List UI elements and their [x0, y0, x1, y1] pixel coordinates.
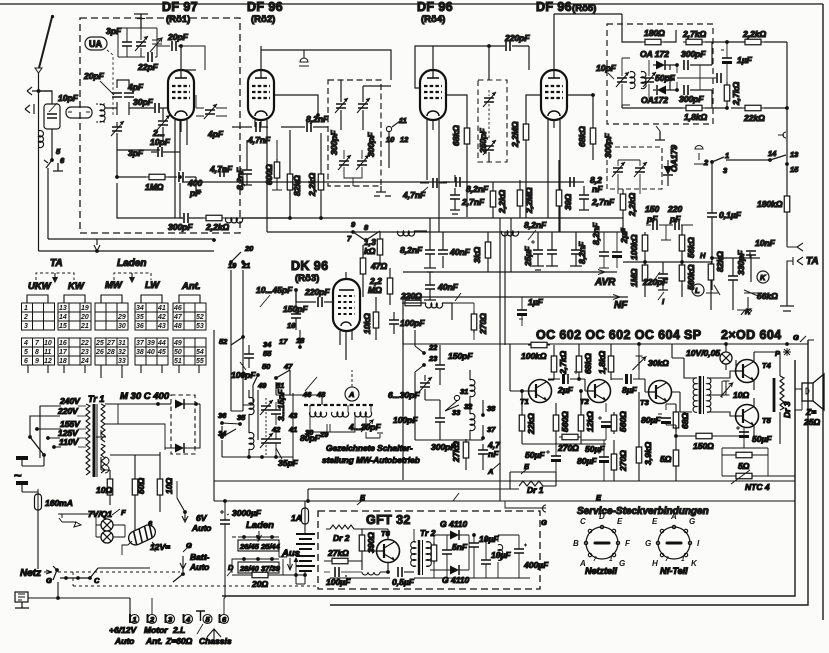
osc tank rails — [118, 28, 157, 57]
junction — [591, 93, 595, 97]
svg-text:6...30pF: 6...30pF — [388, 390, 420, 400]
bus NF y297 — [403, 297, 628, 350]
wire — [528, 230, 536, 240]
transistor T6 — [377, 540, 400, 563]
wire — [726, 104, 728, 108]
svg-text:40: 40 — [146, 349, 155, 356]
trimmer MW — [361, 420, 373, 432]
wire — [151, 598, 153, 614]
cap 22pF — [148, 52, 152, 62]
wire — [570, 232, 582, 266]
choke Dr1 — [510, 472, 556, 489]
cap 30pF series — [155, 103, 159, 113]
wire — [403, 303, 452, 320]
svg-text:18: 18 — [296, 336, 305, 345]
box — [333, 279, 360, 331]
svg-text:+6/12V: +6/12V — [109, 625, 138, 635]
svg-text:Gezeichnete Schalter-: Gezeichnete Schalter- — [326, 443, 413, 453]
wire — [299, 330, 301, 347]
box — [666, 542, 683, 545]
cap 8.2nF avr — [599, 252, 609, 256]
svg-text:100pF: 100pF — [231, 370, 256, 380]
wire — [126, 28, 128, 57]
wire — [220, 501, 225, 598]
svg-text:300pF: 300pF — [603, 133, 613, 158]
T3 base — [645, 379, 648, 392]
svg-text:56kΩ: 56kΩ — [686, 237, 696, 258]
wire — [611, 378, 645, 380]
svg-text:Auto: Auto — [189, 562, 209, 572]
wire — [721, 42, 727, 108]
wire — [737, 297, 752, 315]
transistor T4 — [736, 360, 759, 383]
res 560 vb — [611, 412, 617, 434]
svg-text:50: 50 — [262, 362, 271, 371]
wire from netz switch down — [57, 582, 59, 598]
wire — [770, 155, 786, 160]
svg-text:DF 96: DF 96 — [417, 0, 453, 14]
svg-text:2.L: 2.L — [172, 625, 185, 635]
dashed box demod — [607, 147, 662, 189]
res 600 — [274, 159, 280, 181]
svg-text:32: 32 — [464, 402, 473, 411]
wire — [699, 65, 701, 90]
wire — [452, 303, 474, 340]
junction — [241, 335, 245, 339]
svg-text:1,8kΩ: 1,8kΩ — [684, 112, 708, 122]
svg-text:10Ω: 10Ω — [96, 485, 112, 495]
svg-text:23: 23 — [428, 354, 438, 363]
wire H line — [623, 261, 710, 263]
res 27k h — [329, 558, 351, 564]
wire — [656, 126, 660, 131]
svg-text:G: G — [689, 517, 695, 526]
svg-text:29: 29 — [117, 314, 126, 321]
svg-text:10pF: 10pF — [596, 63, 617, 73]
trimmer demod a — [612, 162, 625, 177]
wire — [404, 571, 414, 573]
wire — [177, 498, 188, 522]
component — [630, 72, 635, 89]
junction — [294, 288, 298, 292]
group — [23, 305, 204, 365]
diode OA172 bottom — [657, 85, 666, 95]
wire — [505, 501, 536, 508]
res 12k v — [578, 412, 584, 434]
dial lamp 2 — [101, 531, 113, 543]
svg-text:DK 96: DK 96 — [291, 259, 328, 273]
grid trimmer 2..10pF — [157, 115, 170, 130]
svg-text:2,2kΩ: 2,2kΩ — [497, 189, 507, 214]
box — [22, 338, 55, 365]
res 10k v — [373, 309, 379, 331]
res 100k h — [528, 342, 550, 348]
wire — [68, 111, 90, 113]
svg-text:Nf-Teil: Nf-Teil — [660, 566, 688, 576]
secondary winding top — [101, 404, 105, 442]
tube Ro1 — [168, 70, 194, 120]
circle K — [757, 271, 769, 283]
svg-text:2,7nF: 2,7nF — [591, 197, 615, 207]
pin — [656, 541, 659, 544]
svg-text:150Ω: 150Ω — [693, 441, 714, 451]
capacitor 10pF box — [44, 104, 60, 129]
wire — [453, 493, 459, 501]
wire — [469, 370, 471, 405]
wire — [96, 404, 98, 477]
svg-text:180Ω: 180Ω — [644, 28, 665, 38]
svg-text:22: 22 — [80, 340, 89, 347]
coil on antenna lead — [39, 131, 44, 148]
svg-text:52: 52 — [196, 314, 204, 321]
cap next — [547, 250, 557, 254]
svg-text:14: 14 — [768, 149, 777, 158]
svg-text:39: 39 — [147, 340, 155, 347]
junction — [637, 342, 641, 346]
wire — [366, 412, 383, 438]
svg-text:50Ω: 50Ω — [136, 478, 146, 494]
wire — [60, 568, 98, 578]
svg-text:5nF: 5nF — [452, 542, 468, 552]
wire — [519, 535, 527, 578]
wire — [492, 182, 494, 218]
box — [135, 303, 168, 330]
svg-text:H: H — [700, 251, 706, 260]
trimmer in box — [483, 92, 496, 107]
svg-text:8,2nF: 8,2nF — [235, 167, 245, 190]
svg-text:1µF: 1µF — [737, 55, 753, 65]
trimmer osc b — [260, 433, 273, 448]
wire — [681, 284, 683, 297]
wire — [15, 602, 29, 608]
wire — [548, 14, 560, 232]
svg-text:220pF: 220pF — [504, 33, 530, 43]
sec mid tap pot — [707, 381, 722, 398]
svg-text:27: 27 — [106, 340, 116, 347]
junction — [674, 434, 678, 438]
mains prong 2 — [16, 481, 28, 485]
wire — [653, 89, 677, 91]
component — [47, 114, 57, 118]
svg-text:T1: T1 — [520, 397, 529, 406]
svg-text:B: B — [573, 539, 579, 548]
T1 base wire — [510, 344, 528, 391]
svg-text:~: ~ — [14, 468, 22, 483]
supply rail top — [403, 330, 760, 480]
svg-text:4...20pF: 4...20pF — [348, 422, 381, 432]
res 68k v — [576, 353, 582, 375]
junction — [178, 175, 182, 179]
label A circled — [345, 387, 359, 401]
inner frame bottom — [222, 360, 795, 596]
coil 8 osc b — [249, 433, 254, 450]
dashed control link — [58, 571, 180, 573]
wire — [227, 514, 229, 515]
wire — [240, 362, 246, 370]
wire — [693, 378, 697, 413]
ratio det transformer pri — [616, 72, 629, 87]
svg-text:30pF: 30pF — [133, 97, 154, 107]
wire — [232, 537, 279, 557]
DK96 pins — [340, 272, 352, 360]
svg-text:50: 50 — [174, 349, 182, 356]
coil MW c — [355, 412, 372, 417]
component — [454, 395, 459, 400]
pin — [588, 553, 591, 556]
wire — [64, 295, 85, 303]
wire down to bus — [47, 168, 49, 239]
svg-text:T4: T4 — [762, 361, 772, 370]
svg-text:0,1µF: 0,1µF — [719, 210, 742, 220]
res 68k Ro4 — [464, 125, 470, 147]
svg-text:3000µF: 3000µF — [232, 508, 262, 518]
connector jack 1 — [27, 87, 52, 95]
wire — [546, 444, 556, 481]
switch grid LW — [135, 295, 168, 373]
tuning coil beside rod — [100, 105, 105, 122]
svg-text:300pF: 300pF — [366, 132, 376, 157]
svg-text:1: 1 — [725, 151, 729, 160]
svg-text:20pF: 20pF — [83, 71, 105, 81]
bus AVR y272 — [403, 271, 617, 273]
wire mesh — [231, 370, 322, 440]
IF trans bottom of box — [483, 140, 496, 155]
Laden bracket — [114, 273, 151, 280]
svg-text:40nF: 40nF — [437, 282, 459, 292]
wire — [175, 46, 187, 218]
wire — [445, 401, 459, 411]
svg-text:E: E — [652, 517, 658, 526]
wire — [430, 535, 469, 570]
switch 6V — [183, 510, 187, 514]
res 270 h — [559, 434, 581, 440]
junction — [35, 427, 39, 431]
svg-text:47: 47 — [283, 362, 293, 371]
res 1.8k v — [608, 353, 614, 375]
svg-text:82kΩ: 82kΩ — [715, 251, 725, 272]
svg-text:12kΩ: 12kΩ — [585, 411, 595, 432]
res 10 ohm fil — [107, 476, 113, 498]
wire — [532, 232, 544, 270]
cap 4.7nF left — [220, 167, 224, 177]
svg-text:8,2nF: 8,2nF — [306, 114, 329, 124]
wire — [787, 257, 803, 269]
slashes on NF line — [455, 293, 461, 301]
ratio det transformer sec — [641, 72, 646, 89]
lamp 10V — [720, 352, 732, 364]
terminal 4 — [183, 614, 185, 623]
svg-text:8,2nF: 8,2nF — [591, 222, 601, 245]
junction — [785, 106, 789, 110]
svg-text:2,2kΩ: 2,2kΩ — [307, 172, 317, 197]
svg-text:MΩ: MΩ — [368, 285, 382, 295]
svg-text:31: 31 — [460, 387, 468, 396]
chassis tap on bus — [94, 245, 100, 251]
res 22k — [742, 105, 764, 111]
diode OA179 — [663, 166, 673, 175]
svg-text:82kΩ: 82kΩ — [292, 175, 302, 196]
svg-text:270Ω: 270Ω — [618, 450, 628, 472]
GFT pri — [411, 542, 416, 567]
shield sym top — [134, 14, 148, 28]
wire — [519, 297, 523, 326]
svg-text:nF: nF — [488, 449, 499, 459]
wire — [22, 485, 38, 569]
svg-text:400: 400 — [187, 178, 202, 188]
wire — [732, 258, 734, 310]
wire — [295, 290, 297, 330]
svg-text:36: 36 — [136, 323, 144, 330]
wire — [159, 452, 161, 512]
svg-text:Ant.: Ant. — [145, 636, 163, 646]
rect G4110 bottom — [450, 565, 459, 575]
res 1M v — [642, 262, 648, 284]
wire — [296, 531, 305, 584]
svg-text:220V: 220V — [57, 406, 79, 416]
wire — [232, 559, 283, 575]
svg-text:45: 45 — [157, 349, 166, 356]
svg-text:Service-Steckverbindungen: Service-Steckverbindungen — [577, 506, 709, 517]
res 270 v T2 — [611, 451, 617, 473]
svg-text:Dr 1: Dr 1 — [527, 485, 544, 495]
wire — [375, 232, 385, 264]
wire — [232, 557, 287, 573]
cap 40nF b — [438, 250, 448, 254]
svg-text:3kΩ: 3kΩ — [472, 247, 482, 263]
jack T — [196, 611, 205, 621]
wire — [176, 481, 178, 498]
dashed link — [351, 370, 353, 387]
svg-text:4pF: 4pF — [207, 129, 224, 139]
pin — [584, 541, 587, 544]
wire — [750, 255, 752, 282]
bus wires left — [48, 238, 214, 240]
dashed box rectifier — [171, 395, 195, 454]
dashed box Ro1 — [80, 18, 240, 233]
junction — [785, 342, 789, 346]
transistor T2 — [588, 380, 611, 403]
svg-text:DF 97: DF 97 — [162, 0, 198, 14]
box — [95, 338, 128, 365]
junction — [247, 455, 251, 459]
wire — [52, 16, 54, 18]
svg-text:400µF: 400µF — [523, 560, 549, 570]
cap 50pF — [665, 76, 675, 80]
wire — [64, 365, 85, 373]
wire — [420, 182, 447, 184]
wire — [497, 535, 499, 578]
svg-text:30: 30 — [118, 323, 126, 330]
cap 2.7nF — [450, 195, 460, 199]
wire — [27, 295, 48, 303]
junction — [364, 238, 368, 242]
wire — [764, 42, 787, 133]
grid wire Ro4 — [447, 95, 467, 125]
switch G netz — [55, 568, 59, 572]
wire — [117, 122, 160, 150]
svg-text:G: G — [46, 576, 52, 585]
coil MW b — [332, 412, 349, 417]
wire — [469, 405, 471, 440]
elyt 8uF — [625, 374, 631, 384]
svg-text:55: 55 — [263, 349, 272, 358]
wire — [433, 535, 435, 578]
res 5 h out — [733, 452, 755, 458]
wire — [726, 159, 770, 161]
junction — [724, 342, 728, 346]
bus AGC y217 — [240, 217, 623, 219]
component — [533, 250, 543, 254]
svg-text:10V/0,05: 10V/0,05 — [686, 348, 720, 358]
svg-text:15: 15 — [59, 323, 67, 330]
cap 8.2nF v — [242, 170, 252, 174]
dashed link — [257, 540, 259, 551]
junction — [95, 249, 99, 253]
oval UA — [85, 37, 107, 50]
res 39 v — [556, 187, 562, 209]
svg-text:2,2MΩ: 2,2MΩ — [510, 121, 520, 148]
long vertical buses to bottom — [500, 218, 511, 501]
wires osc section — [117, 120, 196, 218]
junction — [468, 403, 472, 407]
svg-text:Aus: Aus — [281, 548, 300, 559]
svg-text:G: G — [645, 539, 651, 548]
svg-text:Dr 2: Dr 2 — [333, 533, 350, 543]
cap 300pF — [184, 213, 188, 223]
svg-text:G 4110: G 4110 — [440, 519, 468, 529]
wire — [420, 187, 428, 194]
svg-text:A: A — [487, 467, 493, 476]
junction — [220, 435, 224, 439]
wire — [658, 262, 668, 290]
svg-text:3pF: 3pF — [128, 148, 144, 158]
svg-text:150: 150 — [645, 204, 659, 214]
svg-text:G: G — [541, 518, 547, 527]
svg-text:MW: MW — [105, 280, 123, 291]
dashed link — [265, 431, 267, 455]
switch contact 5-6 — [44, 160, 52, 168]
pot 30k — [633, 356, 646, 370]
junction — [242, 535, 246, 539]
wire — [109, 470, 111, 505]
anode wire Ro5 top to box — [554, 13, 622, 15]
svg-text:LW: LW — [145, 280, 160, 291]
wire — [362, 245, 364, 297]
svg-text:38: 38 — [136, 349, 144, 356]
wire — [196, 95, 227, 116]
tube Ro5 — [541, 70, 567, 120]
svg-text:47: 47 — [173, 314, 183, 321]
wire — [800, 336, 806, 342]
junction — [725, 106, 729, 110]
svg-text:44: 44 — [157, 340, 166, 347]
wire — [162, 108, 164, 140]
switch grid UKW — [22, 295, 55, 373]
wire — [492, 463, 500, 470]
gnd under TA — [780, 269, 794, 311]
wire — [466, 147, 468, 217]
wire — [599, 232, 609, 268]
variable cap main tune — [111, 121, 124, 136]
wire — [488, 46, 490, 80]
cap 300pF a — [684, 60, 688, 70]
selector switch arm — [30, 437, 44, 455]
ground return y481 — [214, 480, 795, 482]
wire — [658, 292, 664, 300]
switch grid KW — [58, 295, 91, 373]
trimmer IF a — [335, 98, 348, 113]
wire — [288, 558, 293, 570]
